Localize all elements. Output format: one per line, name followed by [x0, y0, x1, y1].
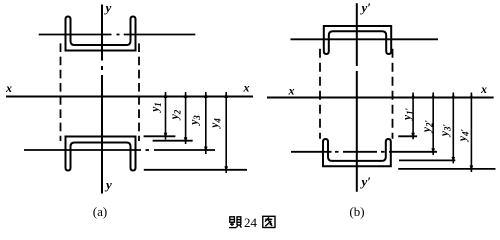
svg-text:(b): (b)	[349, 204, 364, 219]
svg-text:y′: y′	[360, 174, 372, 189]
arrowheads (b)	[411, 93, 473, 172]
dimension line y1' (b)	[398, 93, 417, 140]
svg-text:x: x	[288, 84, 295, 98]
centerline of C4	[291, 151, 437, 153]
svg-text:x: x	[5, 81, 12, 95]
x axis (b)	[267, 97, 494, 99]
dashed line left (b)	[319, 49, 321, 139]
dashed line left (a)	[60, 43, 62, 141]
channel C1 (a top, opens up)	[66, 17, 136, 51]
dimension line y4 (a)	[144, 92, 247, 173]
dashed line right (b)	[392, 49, 394, 139]
caption character 图 (drawn strokes)	[263, 216, 275, 227]
dimension line y4' (b)	[398, 93, 495, 173]
dimension line y2 (a)	[153, 92, 193, 144]
y axis (a)	[101, 5, 103, 61]
svg-text:y′: y′	[360, 0, 372, 15]
dimension line y2' (b)	[432, 93, 434, 156]
dashed line right (a)	[138, 43, 140, 141]
svg-text:y1: y1	[149, 102, 163, 114]
svg-text:x: x	[480, 82, 487, 96]
svg-text:24: 24	[244, 215, 258, 230]
svg-text:y2: y2	[169, 109, 183, 121]
svg-text:y2′: y2′	[421, 119, 435, 134]
channel C4 (b bottom, opens up)	[323, 139, 391, 166]
caption character 题 (drawn strokes)	[229, 217, 241, 228]
y' axis (b)	[356, 3, 358, 66]
centerline of C1	[39, 34, 196, 36]
svg-text:y4: y4	[209, 118, 223, 130]
svg-text:(a): (a)	[93, 204, 107, 219]
svg-text:y: y	[104, 0, 112, 15]
x axis (a)	[6, 96, 253, 98]
svg-text:y3: y3	[189, 115, 203, 127]
centerline of C2	[24, 149, 215, 151]
svg-text:x: x	[243, 81, 250, 95]
arrowheads (a)	[164, 92, 228, 172]
dimension line y3' (b)	[399, 93, 455, 164]
dimension line y3 (a)	[205, 92, 207, 154]
channel C3 (b top, opens down)	[324, 26, 391, 54]
svg-text:y: y	[104, 177, 112, 192]
channel C2 (a bottom, opens down)	[66, 137, 136, 171]
svg-text:y4′: y4′	[457, 128, 471, 143]
dimension line y1 (a)	[144, 92, 176, 140]
svg-text:y1′: y1′	[402, 107, 416, 122]
svg-text:y3′: y3′	[439, 123, 453, 138]
centerline of C3	[291, 38, 439, 40]
